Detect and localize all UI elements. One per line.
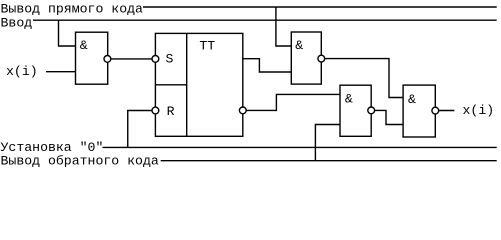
svg-text:&: & [295, 38, 303, 53]
svg-text:TT: TT [199, 39, 215, 54]
svg-text:&: & [80, 38, 88, 53]
svg-text:x(i): x(i) [463, 103, 495, 118]
svg-text:Вывод обратного кода: Вывод обратного кода [1, 154, 159, 169]
svg-text:S: S [166, 52, 174, 67]
svg-text:&: & [345, 92, 353, 107]
svg-text:Ввод: Ввод [1, 15, 33, 30]
svg-text:x(i): x(i) [6, 64, 38, 79]
svg-text:&: & [408, 92, 416, 107]
svg-text:R: R [167, 104, 175, 119]
